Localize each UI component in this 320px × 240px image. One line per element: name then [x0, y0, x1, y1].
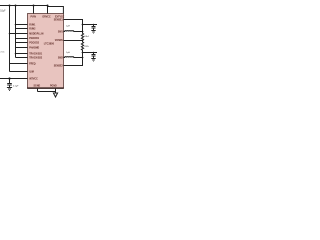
wire SENSE2 loop bottom right [64, 58, 83, 66]
ground below C4 [91, 59, 95, 62]
node dot cap C4 [93, 52, 95, 54]
node dot (82,31) [82, 31, 84, 33]
wire VOUT2 line [83, 52, 98, 54]
svg-text:RUN2: RUN2 [29, 28, 36, 30]
svg-text:PHASMD: PHASMD [29, 46, 39, 49]
svg-text:SW2: SW2 [58, 57, 64, 59]
wire vertical feed B x15 [16, 6, 28, 58]
wire VIN top rail [0, 5, 48, 7]
svg-text:ILIM: ILIM [29, 71, 34, 73]
svg-text:TRACK/SS2: TRACK/SS2 [29, 56, 43, 59]
ground below C3 [91, 31, 95, 34]
value/net labels outside [0, 10, 90, 87]
svg-text:PGND: PGND [50, 86, 57, 88]
svg-text:1µH: 1µH [66, 26, 70, 28]
svg-text:PVIN: PVIN [31, 16, 37, 18]
wire top box to chip top [48, 6, 64, 14]
svg-text:SGND: SGND [34, 86, 41, 88]
node dot rail x33 [33, 5, 35, 7]
wire rail segment 2 [82, 53, 84, 58]
pin labels inside chip [29, 16, 64, 87]
IC U1 chip body [28, 14, 64, 89]
node dot (82,57) [82, 57, 84, 59]
svg-text:SENSE2: SENSE2 [54, 65, 64, 67]
svg-text:FREQ: FREQ [29, 63, 36, 65]
node dot (82,24) [82, 24, 84, 26]
svg-text:SW1: SW1 [58, 31, 64, 33]
svg-text:63k4: 63k4 [84, 36, 89, 38]
node dot cap C3 [93, 24, 95, 26]
inductor L1 [64, 30, 83, 33]
svg-text:10µF: 10µF [0, 10, 6, 12]
wire drop x33 to chip top [33, 6, 35, 14]
resistor R1 [81, 32, 83, 41]
capacitor C2 bypass [7, 79, 12, 88]
svg-text:LTC3850: LTC3850 [44, 43, 55, 46]
node dot rail x47 [47, 5, 49, 7]
svg-text:1µH: 1µH [66, 52, 70, 54]
node dot (9,78) [8, 77, 10, 79]
capacitor C3 output1 [92, 25, 96, 31]
node dot (9,33) [9, 33, 11, 35]
svg-text:PGOOD2: PGOOD2 [29, 42, 40, 44]
wire left lower stub [10, 63, 28, 65]
wire INTVCC pin line y78 [0, 78, 28, 80]
svg-text:MODE/PLLIN: MODE/PLLIN [29, 33, 44, 35]
svg-text:TRACK/SS1: TRACK/SS1 [29, 52, 43, 55]
svg-text:VOSNS: VOSNS [55, 40, 64, 42]
svg-text:INTVCC: INTVCC [29, 78, 38, 80]
wire VOUT1 line [83, 24, 98, 26]
junction dots [8, 5, 94, 80]
svg-text:RUN1: RUN1 [29, 24, 36, 26]
svg-text:0.1µF: 0.1µF [13, 85, 19, 87]
node dot rail x9 [9, 5, 11, 7]
node dot (15,33) [15, 33, 17, 35]
IC U1 bottom edge [27, 87, 64, 89]
wire rail segment [82, 25, 84, 34]
ground chip PGND [53, 93, 57, 97]
wire SENSE1 loop top right [64, 20, 83, 25]
node dot rail x15 [15, 5, 17, 7]
wire FB tap [64, 40, 83, 42]
node dot (82,40.5) [82, 40, 83, 41]
svg-text:SENSE1: SENSE1 [54, 19, 64, 21]
node dot (82,52) [82, 52, 84, 54]
svg-text:250k: 250k [0, 51, 5, 53]
capacitor C4 output2 [92, 53, 96, 59]
node dot (15,24) [15, 24, 17, 26]
inductor L2 [64, 56, 83, 59]
wire chip ground bus [38, 89, 56, 93]
wire vertical feed A x9 [10, 6, 28, 72]
svg-text:PGOOD1: PGOOD1 [29, 38, 40, 40]
svg-text:432k: 432k [84, 46, 89, 48]
svg-text:DRVCC: DRVCC [43, 16, 51, 18]
ground below C2 [7, 88, 12, 91]
resistor R2 [81, 41, 83, 53]
wire left pin stubs [10, 25, 28, 54]
svg-text:EXTVCC: EXTVCC [55, 16, 65, 18]
node dot (15,53) [15, 53, 17, 55]
